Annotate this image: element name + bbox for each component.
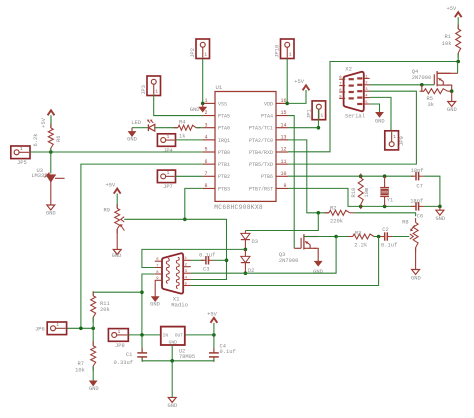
svg-text:2N7000: 2N7000 xyxy=(412,75,431,81)
svg-text:GND: GND xyxy=(169,340,178,346)
power +5V at VDD xyxy=(294,79,309,90)
junction R6/U3 node xyxy=(49,150,53,154)
junction R2/D3 branch xyxy=(317,211,321,215)
svg-text:11: 11 xyxy=(280,159,286,165)
svg-text:1: 1 xyxy=(204,53,207,58)
svg-text:IN: IN xyxy=(163,333,169,339)
junction R9 wiper xyxy=(183,218,187,222)
junction ground rail xyxy=(170,359,174,363)
ground X2 xyxy=(375,112,385,124)
svg-text:X2: X2 xyxy=(345,66,352,73)
potentiometer R8 xyxy=(402,218,418,252)
svg-text:MC68HC908KX8: MC68HC908KX8 xyxy=(214,204,263,211)
resistor R5 xyxy=(420,85,453,108)
transistor Q3 2N7000 xyxy=(279,234,318,264)
svg-text:4: 4 xyxy=(205,134,208,140)
junction Q3 drain node xyxy=(334,235,338,239)
wire R2 to R8 xyxy=(354,213,415,217)
resistor R11 xyxy=(91,291,142,321)
junction R11/R7 xyxy=(91,327,95,331)
svg-text:+5V: +5V xyxy=(446,6,456,12)
wire Q3 drain xyxy=(304,236,336,238)
svg-text:220k: 220k xyxy=(330,218,343,224)
wire X1 to U2 input xyxy=(142,274,155,335)
wire Q4 source xyxy=(447,85,452,91)
svg-text:PTB0: PTB0 xyxy=(218,150,230,156)
svg-text:C3: C3 xyxy=(203,266,209,272)
wire C7 right xyxy=(424,176,440,206)
capacitor C6 xyxy=(410,198,423,219)
connector JP9 xyxy=(385,131,405,150)
ground R7 xyxy=(89,381,99,392)
svg-text:JP7: JP7 xyxy=(163,184,173,190)
junction Y1 top xyxy=(383,174,387,178)
wire R8 to ground xyxy=(415,248,417,270)
svg-text:5: 5 xyxy=(205,147,208,153)
wire drain drop xyxy=(457,62,459,74)
svg-text:18pf: 18pf xyxy=(410,198,423,204)
connector JP3 xyxy=(141,76,160,96)
power +5V at U2 xyxy=(207,311,217,322)
ground R8 xyxy=(411,270,421,282)
svg-text:PTA3/TC1: PTA3/TC1 xyxy=(249,126,273,132)
svg-text:OUT: OUT xyxy=(175,333,184,339)
svg-text:1: 1 xyxy=(393,135,396,140)
svg-text:PTB4/RXD: PTB4/RXD xyxy=(249,150,273,156)
wire JP2 to VSS xyxy=(202,59,204,104)
connector JP1 xyxy=(306,101,325,120)
svg-text:LED: LED xyxy=(131,120,141,126)
wire R11 bottom xyxy=(92,317,94,328)
svg-text:GND: GND xyxy=(411,275,421,281)
svg-text:10m: 10m xyxy=(364,188,370,198)
voltage regulator U2 78M05 xyxy=(161,327,195,360)
svg-text:1: 1 xyxy=(205,98,208,104)
ground below R9 xyxy=(112,249,122,259)
junction R10 top xyxy=(359,174,363,178)
wire VDD to +5V xyxy=(288,90,306,103)
svg-text:JP10: JP10 xyxy=(275,45,281,58)
wire D2 to X1 line xyxy=(244,263,246,273)
wire C6 right xyxy=(424,205,440,207)
resistor R7 xyxy=(75,328,96,373)
svg-text:6.2k: 6.2k xyxy=(33,134,39,147)
svg-text:C6: C6 xyxy=(417,214,423,220)
wire U3 to ground xyxy=(50,182,52,205)
svg-text:PTB5/TXD: PTB5/TXD xyxy=(249,162,273,168)
svg-text:JP5: JP5 xyxy=(17,160,27,166)
wire JP4 to IRQ1 xyxy=(176,139,204,141)
svg-text:2N7000: 2N7000 xyxy=(279,258,298,264)
resistor R4 xyxy=(174,120,201,140)
svg-text:GND: GND xyxy=(190,107,200,113)
wire R7 to ground xyxy=(92,366,94,381)
wire JP10 to VDD xyxy=(286,59,288,104)
temperature sensor U3 LM335 xyxy=(31,168,64,182)
svg-text:1k: 1k xyxy=(179,133,185,139)
wire R3 left xyxy=(336,236,353,238)
wire PTB6 osc top xyxy=(288,175,414,177)
svg-text:78M05: 78M05 xyxy=(179,354,195,360)
wire node to U3 xyxy=(50,152,52,174)
diode D3 xyxy=(241,233,258,245)
junction PTB1 tap xyxy=(79,327,83,331)
junction VDD/JP10 xyxy=(285,102,289,106)
svg-text:PTB7/RST: PTB7/RST xyxy=(249,186,273,192)
svg-text:0.1uf: 0.1uf xyxy=(381,243,397,249)
svg-text:C2: C2 xyxy=(382,227,388,233)
svg-text:JP9: JP9 xyxy=(399,136,405,146)
capacitor C2 xyxy=(380,227,397,249)
power +5V at R1 xyxy=(446,6,461,17)
connector X1 Radio DB9 xyxy=(155,253,191,308)
svg-text:PTA0: PTA0 xyxy=(218,126,230,132)
ground Q3 xyxy=(313,261,323,275)
wire JP8 to U2 IN xyxy=(128,334,161,336)
connector JP6 xyxy=(35,322,67,335)
junction Y1 bottom xyxy=(383,205,387,209)
wire wiper to C3 node xyxy=(185,219,227,279)
wire R9 to ground xyxy=(116,229,118,249)
wire X1 pin1 to C3 xyxy=(191,259,204,261)
svg-text:VSS: VSS xyxy=(218,101,227,107)
svg-text:VDD: VDD xyxy=(264,101,273,107)
connector JP7 xyxy=(157,170,175,190)
power +5V at R9 xyxy=(105,182,120,193)
wire LED row xyxy=(132,127,148,129)
svg-text:C1: C1 xyxy=(126,352,132,358)
crystal Y1 xyxy=(380,176,393,206)
svg-text:GND: GND xyxy=(313,269,323,275)
wire PTB1 to divider xyxy=(81,164,203,328)
wire +5V to R6 xyxy=(50,115,52,128)
svg-text:1: 1 xyxy=(167,171,170,176)
svg-text:10: 10 xyxy=(280,171,286,177)
svg-text:1: 1 xyxy=(320,114,323,119)
resistor R10 xyxy=(351,174,370,210)
wire TXD net xyxy=(288,91,416,164)
svg-text:PTB3: PTB3 xyxy=(218,186,230,192)
svg-text:1: 1 xyxy=(155,90,158,95)
svg-text:12: 12 xyxy=(280,147,286,153)
wire PTA2 to R2 xyxy=(288,140,329,213)
svg-text:+5V: +5V xyxy=(41,117,47,127)
ground osc xyxy=(435,206,445,222)
svg-text:GND: GND xyxy=(46,211,56,217)
wire X2 pin2 to gate xyxy=(370,84,435,86)
wire RXD net xyxy=(288,62,458,152)
wire JP3 to PTA5 xyxy=(154,95,203,116)
resistor R1 xyxy=(442,25,461,58)
junction JP1/PTA3 xyxy=(317,126,321,130)
svg-text:1: 1 xyxy=(56,323,59,328)
connector JP4 xyxy=(157,134,175,154)
capacitor C7 xyxy=(411,168,424,189)
svg-text:1: 1 xyxy=(20,147,23,152)
wire R6 to node xyxy=(50,148,52,152)
junction D3 bottom xyxy=(244,248,248,252)
svg-text:Y1: Y1 xyxy=(387,198,393,204)
junction U2 input node xyxy=(140,333,144,337)
wire PTB3 down xyxy=(185,188,203,219)
svg-text:+5V: +5V xyxy=(207,311,217,317)
wire LED to R4 xyxy=(155,127,178,129)
svg-text:GND: GND xyxy=(435,216,445,222)
wire C3 to node xyxy=(214,259,227,261)
svg-text:3: 3 xyxy=(205,122,208,128)
svg-text:JP2: JP2 xyxy=(190,48,196,58)
ground X1 xyxy=(150,297,160,308)
connector JP10 xyxy=(275,39,294,59)
diode D2 xyxy=(241,249,255,274)
svg-text:R9: R9 xyxy=(104,207,110,213)
junction R11 tap xyxy=(140,290,144,294)
svg-text:PTA5: PTA5 xyxy=(218,113,230,119)
wire PTB7 osc bottom xyxy=(288,188,416,206)
svg-text:PTB6: PTB6 xyxy=(261,174,273,180)
svg-text:9: 9 xyxy=(283,183,286,189)
svg-text:D3: D3 xyxy=(252,239,258,245)
power +5V at R6 xyxy=(41,110,55,128)
junction R10 bottom xyxy=(359,205,363,209)
svg-text:+5V: +5V xyxy=(294,79,304,85)
svg-text:R7: R7 xyxy=(78,361,84,367)
svg-text:R6: R6 xyxy=(56,136,62,142)
svg-text:Serial: Serial xyxy=(345,113,366,120)
svg-text:13: 13 xyxy=(280,134,286,140)
svg-text:GND: GND xyxy=(89,386,99,392)
wire source to ground xyxy=(451,91,453,101)
svg-text:PTB1: PTB1 xyxy=(218,162,230,168)
ground at LED xyxy=(127,128,137,143)
LED xyxy=(131,120,155,132)
resistor R6 xyxy=(33,124,62,153)
svg-text:20k: 20k xyxy=(100,307,110,313)
wire D3 top lead xyxy=(244,231,246,234)
wire U2 GND xyxy=(171,345,173,361)
capacitor C4 xyxy=(209,335,236,362)
wire PTA3 pin 14 xyxy=(288,127,318,129)
svg-text:IRQ1: IRQ1 xyxy=(218,138,230,144)
resistor R2 xyxy=(325,206,355,225)
capacitor C1 xyxy=(114,335,148,366)
wire divider row xyxy=(67,327,94,329)
wire X2 pin5 to ground xyxy=(370,104,380,112)
svg-text:R1: R1 xyxy=(445,34,451,40)
svg-text:PTA4: PTA4 xyxy=(261,113,273,119)
svg-text:6: 6 xyxy=(205,159,208,165)
svg-text:8: 8 xyxy=(205,183,208,189)
connector JP5 xyxy=(11,146,30,166)
wire Q4 drain xyxy=(437,72,458,74)
wire branch to D3 xyxy=(245,213,318,231)
wire X2 pin4 to JP9 xyxy=(370,97,391,130)
wire C2 node to X1 line L2 xyxy=(191,237,379,286)
svg-text:R4: R4 xyxy=(179,120,185,126)
junction C3 right xyxy=(225,259,229,263)
svg-text:7: 7 xyxy=(205,171,208,177)
wire U2 OUT to +5V xyxy=(185,334,214,336)
wire PTA4 to Q3 gate xyxy=(288,116,294,249)
ground below U3 xyxy=(46,205,56,217)
junction D2 bottom xyxy=(244,271,248,275)
svg-text:R10: R10 xyxy=(351,188,357,198)
svg-text:R3: R3 xyxy=(355,230,361,236)
svg-text:R8: R8 xyxy=(402,219,408,225)
svg-text:10k: 10k xyxy=(442,41,452,47)
junction gate/R5 xyxy=(420,83,424,87)
svg-text:2: 2 xyxy=(205,110,208,116)
svg-text:GND: GND xyxy=(150,301,160,307)
wire +5V stem xyxy=(213,323,215,335)
svg-text:JP6: JP6 xyxy=(35,327,45,333)
wire R9 wiper xyxy=(124,218,185,220)
ground Q4 xyxy=(447,102,457,114)
svg-text:0.1uf: 0.1uf xyxy=(220,349,236,355)
svg-text:GND: GND xyxy=(375,118,385,124)
svg-text:1: 1 xyxy=(289,53,292,58)
wire +5V to R1 xyxy=(457,17,459,29)
junction R5/source xyxy=(450,89,454,93)
svg-text:10k: 10k xyxy=(75,367,85,373)
resistor R3 xyxy=(348,230,378,248)
wire JP7 to PTB2 xyxy=(176,175,204,177)
wire +5V to R9 xyxy=(116,194,118,209)
svg-text:PTB2: PTB2 xyxy=(218,174,230,180)
svg-text:0.1uf: 0.1uf xyxy=(199,252,215,258)
junction R1/RXD/drain xyxy=(456,60,460,64)
junction C2 left xyxy=(377,235,381,239)
svg-text:GND: GND xyxy=(168,403,178,409)
svg-text:+5V: +5V xyxy=(105,182,115,188)
svg-text:PTA2/TC0: PTA2/TC0 xyxy=(249,138,273,144)
svg-text:JP3: JP3 xyxy=(141,85,147,95)
svg-text:0.33uf: 0.33uf xyxy=(114,360,133,366)
capacitor C3 xyxy=(199,252,215,272)
svg-text:14: 14 xyxy=(280,122,286,128)
wire Q3 source down xyxy=(314,248,318,261)
svg-text:3k: 3k xyxy=(428,102,434,108)
wire C2 to R8 wiper xyxy=(392,236,409,238)
connector JP2 xyxy=(190,39,209,59)
svg-text:R2: R2 xyxy=(330,206,336,212)
wire R4 to PTA0 xyxy=(196,127,203,129)
ground U2 xyxy=(168,397,178,409)
svg-text:18pf: 18pf xyxy=(411,168,424,174)
svg-text:R5: R5 xyxy=(427,96,433,102)
wire ground rail xyxy=(142,360,214,362)
wire supply node to X1 xyxy=(142,249,246,267)
wire R3 to C2 xyxy=(374,236,385,238)
junction +5V node xyxy=(212,333,216,337)
wire R1 to drain xyxy=(457,53,459,62)
IC U1 MC68HC908KX8 xyxy=(203,84,288,211)
svg-text:JP4: JP4 xyxy=(163,148,173,154)
svg-text:U1: U1 xyxy=(216,84,223,91)
transistor Q4 2N7000 xyxy=(412,69,451,86)
svg-text:LM335: LM335 xyxy=(31,173,47,179)
svg-text:GND: GND xyxy=(127,137,137,143)
svg-text:1: 1 xyxy=(167,135,170,140)
wire rail to ground xyxy=(171,361,173,398)
svg-text:JP8: JP8 xyxy=(115,343,125,349)
svg-text:GND: GND xyxy=(112,253,122,259)
ground at VSS pin 1 xyxy=(190,103,206,113)
wire JP5 to PTB0 xyxy=(30,151,203,153)
connector X2 Serial DB9 xyxy=(339,66,369,120)
svg-text:2.2k: 2.2k xyxy=(354,243,367,249)
wire JP1 to PTA3 xyxy=(317,109,319,128)
svg-text:JP1: JP1 xyxy=(306,109,312,119)
wire X1 ground stem xyxy=(154,280,156,296)
svg-text:C7: C7 xyxy=(416,183,422,189)
connector JP8 xyxy=(108,329,128,349)
junction C6/C7 ground xyxy=(438,205,442,209)
wire D3 to node xyxy=(244,240,246,249)
potentiometer R9 xyxy=(104,204,125,234)
junction VSS/JP2 xyxy=(201,102,205,106)
svg-text:GND: GND xyxy=(447,107,457,113)
svg-text:Radio: Radio xyxy=(171,301,188,308)
wire node to X1 line L1 xyxy=(191,237,336,274)
svg-text:15: 15 xyxy=(280,110,286,116)
svg-text:1: 1 xyxy=(118,330,121,335)
